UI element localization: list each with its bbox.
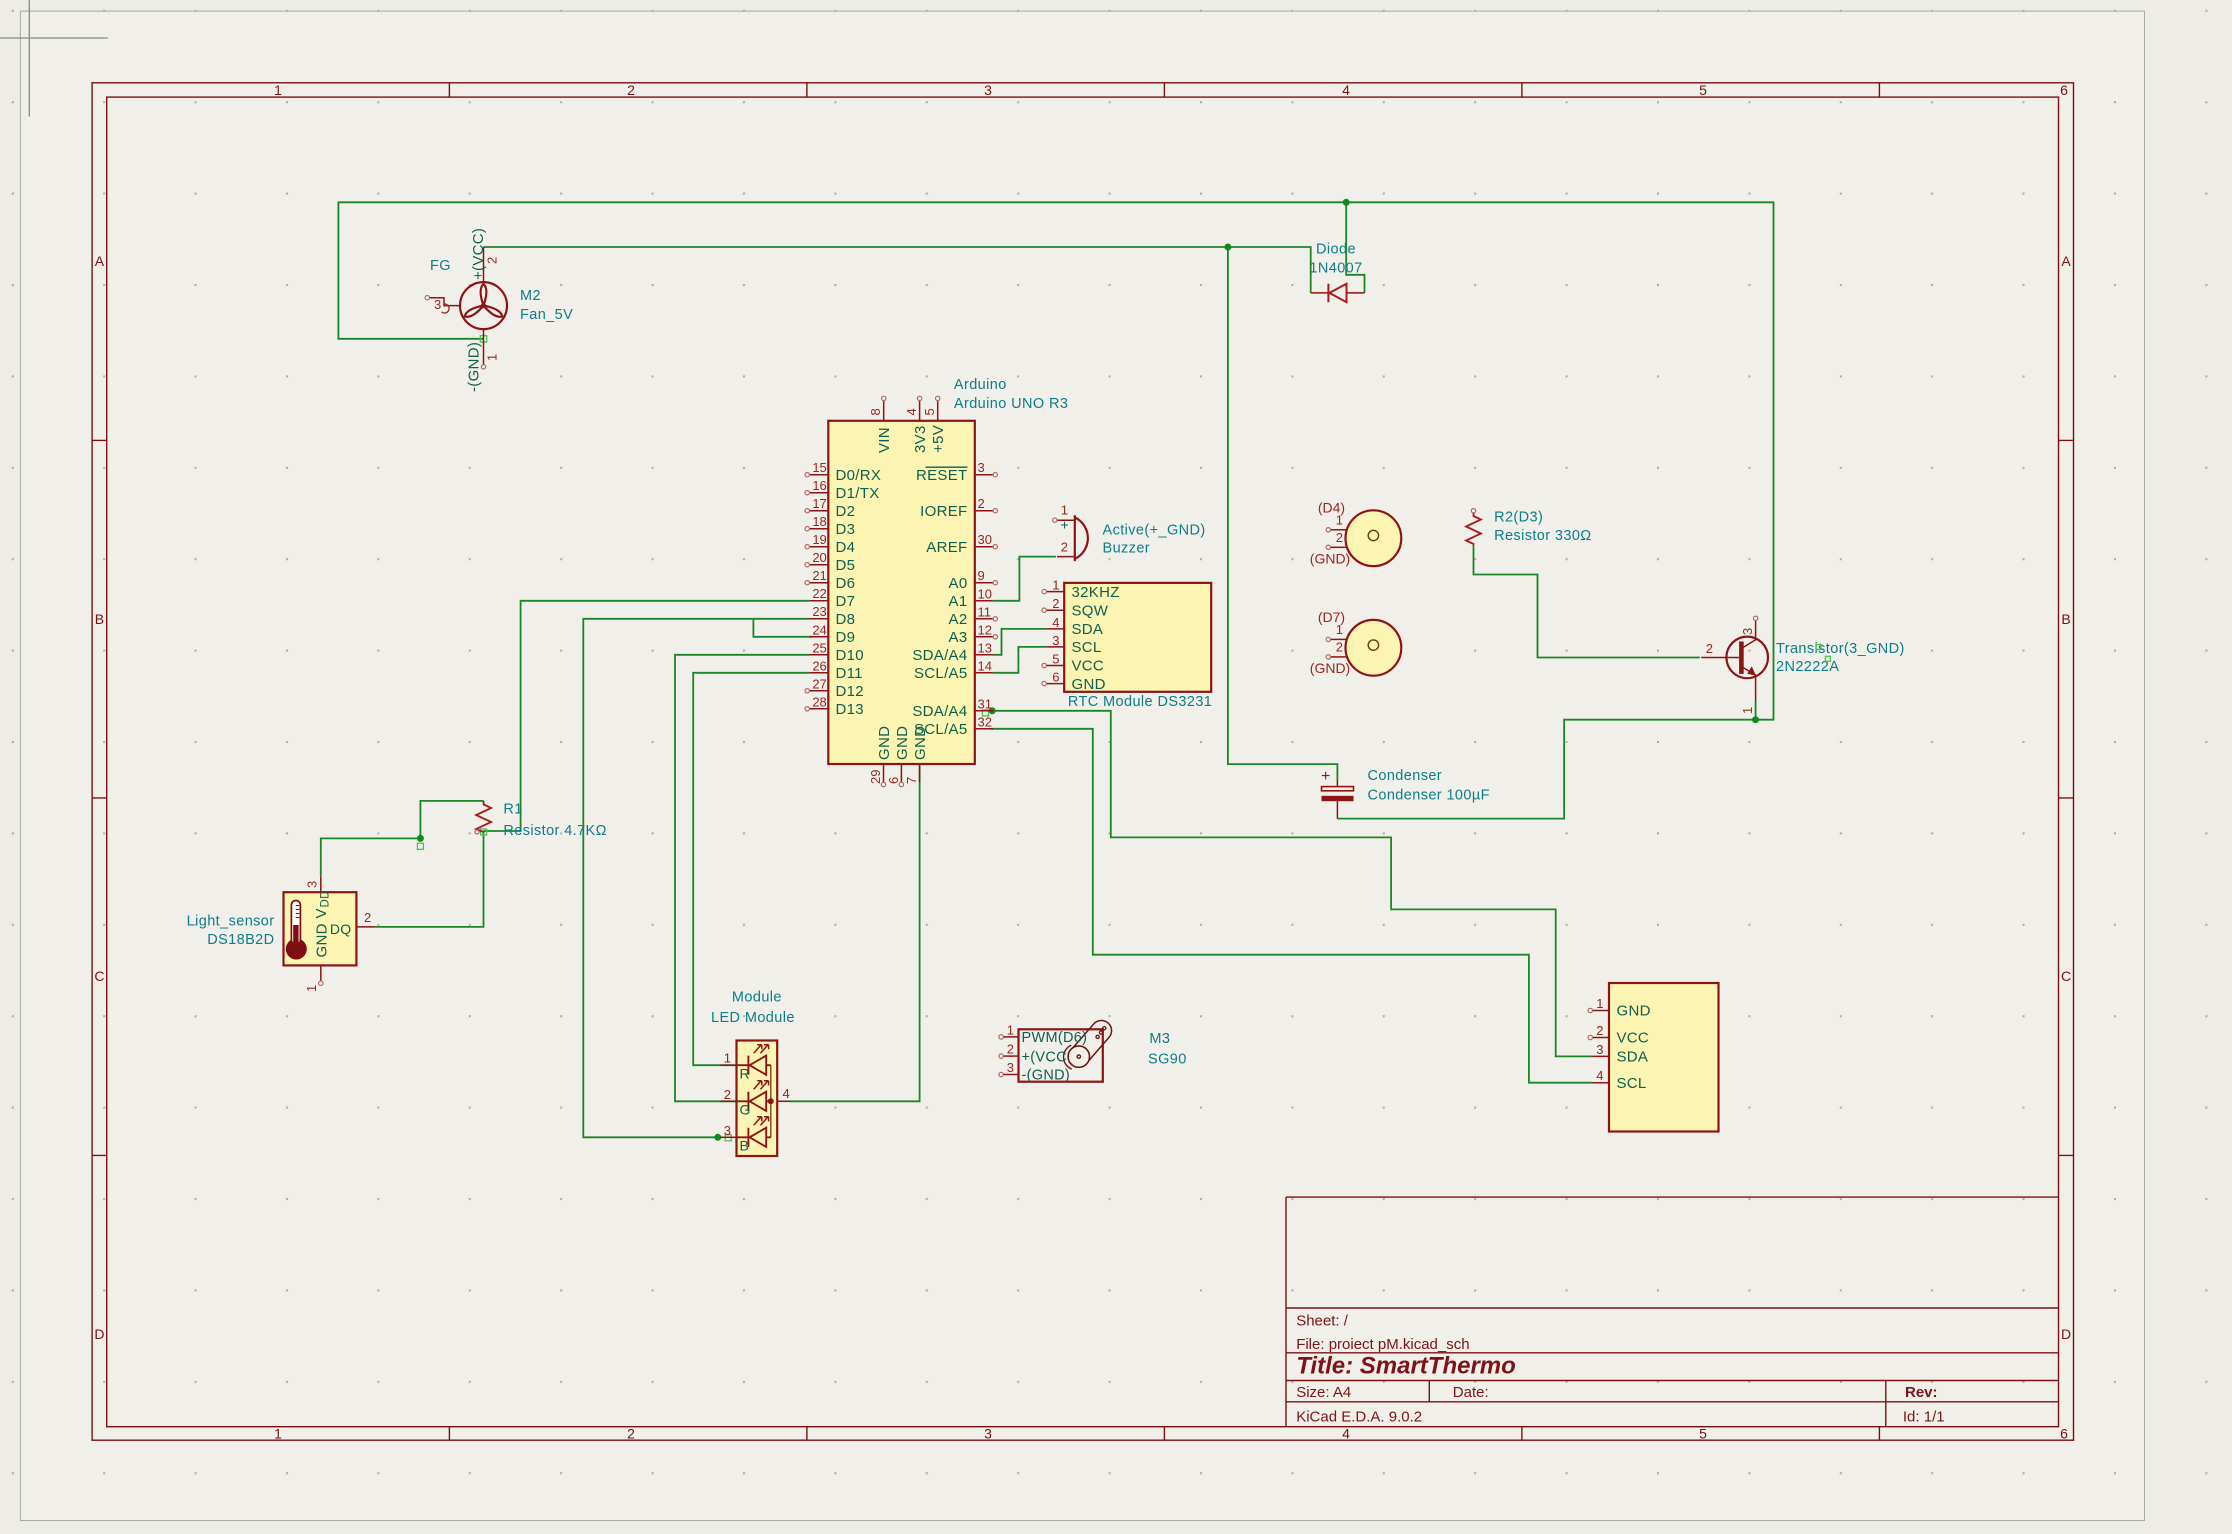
pin 1 GND bbox=[1593, 1010, 1610, 1012]
junction node LED B bbox=[714, 1134, 721, 1141]
svg-text:D0/RX: D0/RX bbox=[836, 467, 882, 484]
svg-text:+(VCC: +(VCC bbox=[1022, 1049, 1067, 1065]
svg-text:14: 14 bbox=[978, 658, 992, 673]
svg-text:Arduino: Arduino bbox=[954, 377, 1007, 393]
pin 4 3V3 bbox=[919, 401, 921, 421]
svg-text:Fan_5V: Fan_5V bbox=[520, 307, 573, 323]
junction node emitter bbox=[1752, 716, 1759, 723]
svg-text:D4: D4 bbox=[836, 539, 856, 556]
inner sheet border bbox=[107, 97, 2059, 1427]
svg-text:SCL: SCL bbox=[1072, 639, 1102, 656]
svg-text:B: B bbox=[740, 1138, 750, 1154]
svg-text:D5: D5 bbox=[836, 557, 856, 574]
svg-text:D9: D9 bbox=[836, 629, 856, 646]
svg-text:4: 4 bbox=[1052, 615, 1059, 630]
svg-text:Title: SmartThermo: Title: SmartThermo bbox=[1296, 1353, 1516, 1380]
svg-text:PWM(D6): PWM(D6) bbox=[1022, 1030, 1088, 1046]
svg-text:DD: DD bbox=[320, 890, 332, 907]
pin 31 SDA/A4 bbox=[975, 710, 993, 712]
svg-text:5: 5 bbox=[922, 408, 937, 415]
wire-end square LED B pin bbox=[725, 1135, 731, 1141]
wire R1 node up to R1 top bbox=[420, 801, 483, 839]
svg-text:R1: R1 bbox=[503, 802, 522, 818]
svg-text:Arduino UNO R3: Arduino UNO R3 bbox=[954, 396, 1068, 412]
svg-text:3V3: 3V3 bbox=[912, 425, 929, 453]
pin 2 IOREF bbox=[975, 510, 993, 512]
pin 4 SDA bbox=[1046, 628, 1064, 630]
emitter pin 1 with arrow bbox=[1741, 667, 1755, 702]
svg-text:6: 6 bbox=[2060, 1426, 2068, 1442]
svg-text:1: 1 bbox=[1061, 502, 1068, 517]
svg-text:3: 3 bbox=[724, 1123, 731, 1138]
wire D7 to R1 bottom node bbox=[484, 601, 810, 831]
svg-text:2: 2 bbox=[627, 82, 635, 98]
svg-text:SCL: SCL bbox=[1617, 1075, 1647, 1092]
LED connector (D7) body bbox=[1346, 620, 1402, 676]
condenser C? 100uF bbox=[1336, 780, 1338, 819]
svg-text:Diode: Diode bbox=[1316, 242, 1356, 258]
svg-text:B: B bbox=[2061, 611, 2070, 627]
pin 2 SQW bbox=[1046, 609, 1064, 611]
svg-text:(GND): (GND) bbox=[1310, 660, 1350, 676]
svg-text:A: A bbox=[2061, 253, 2071, 269]
svg-text:3: 3 bbox=[1740, 628, 1755, 635]
row ticks left bbox=[92, 440, 107, 1155]
svg-text:10: 10 bbox=[978, 586, 992, 601]
wire SCL/A5 to RTC SCL bbox=[993, 647, 1046, 673]
pin 1 32KHZ bbox=[1046, 591, 1064, 593]
pin 6 GND bbox=[900, 764, 902, 782]
wire GND pin7 to LED module pin4 bbox=[790, 766, 920, 1101]
svg-text:(D4): (D4) bbox=[1318, 500, 1345, 516]
svg-text:4: 4 bbox=[1342, 1426, 1350, 1442]
svg-text:SQW: SQW bbox=[1072, 602, 1109, 619]
pin 22 D7 bbox=[809, 600, 828, 602]
svg-text:-(GND): -(GND) bbox=[466, 342, 483, 392]
fan blades bbox=[481, 284, 487, 306]
svg-text:1: 1 bbox=[274, 1426, 282, 1442]
svg-text:16: 16 bbox=[812, 478, 826, 493]
svg-text:V: V bbox=[313, 908, 330, 918]
wire-end square pin31 bbox=[982, 710, 988, 716]
pin 3 B bbox=[721, 1136, 737, 1138]
wire SDA/A4 to RTC SDA bbox=[993, 629, 1046, 655]
svg-text:M2: M2 bbox=[520, 288, 541, 304]
svg-text:13: 13 bbox=[978, 640, 992, 655]
svg-text:+: + bbox=[1321, 768, 1330, 785]
svg-text:6: 6 bbox=[886, 777, 901, 784]
pin 24 D9 bbox=[809, 636, 828, 638]
base lead pin 2 bbox=[1701, 657, 1739, 659]
svg-text:A3: A3 bbox=[949, 629, 968, 646]
Arduino U? body bbox=[828, 421, 975, 764]
svg-text:C: C bbox=[94, 968, 104, 984]
svg-text:7: 7 bbox=[904, 777, 919, 784]
svg-text:GND: GND bbox=[876, 726, 893, 760]
svg-text:17: 17 bbox=[812, 496, 826, 511]
svg-text:DQ: DQ bbox=[330, 921, 352, 937]
wire fan VCC to diode cathode bbox=[484, 247, 1311, 293]
svg-text:Id: 1/1: Id: 1/1 bbox=[1903, 1408, 1945, 1425]
svg-text:SDA: SDA bbox=[1617, 1049, 1649, 1066]
pin 25 D10 bbox=[809, 654, 828, 656]
svg-text:Date:: Date: bbox=[1453, 1384, 1489, 1401]
pin 30 AREF bbox=[975, 546, 993, 548]
row ticks right bbox=[2059, 440, 2074, 1155]
svg-text:5: 5 bbox=[1699, 1426, 1707, 1442]
wire D10 to LED module G pin bbox=[675, 655, 809, 1102]
pin 12 A3 bbox=[975, 636, 993, 638]
svg-text:D8: D8 bbox=[836, 611, 856, 628]
wire D9 elbow joining D8 net bbox=[753, 619, 811, 637]
svg-text:Transistor(3_GND): Transistor(3_GND) bbox=[1776, 641, 1905, 657]
svg-text:D11: D11 bbox=[836, 665, 863, 682]
pin 3 VDD top bbox=[320, 876, 322, 892]
buzzer body bbox=[1075, 515, 1088, 561]
svg-text:FG: FG bbox=[430, 258, 451, 274]
svg-text:2: 2 bbox=[1596, 1023, 1603, 1038]
svg-text:R: R bbox=[740, 1066, 750, 1082]
svg-text:6: 6 bbox=[1052, 670, 1059, 685]
svg-text:1: 1 bbox=[274, 82, 282, 98]
svg-text:IOREF: IOREF bbox=[920, 503, 967, 520]
svg-text:DS18B2D: DS18B2D bbox=[207, 932, 274, 948]
svg-text:1: 1 bbox=[485, 354, 500, 361]
svg-text:4: 4 bbox=[904, 408, 919, 415]
pin 27 D12 bbox=[809, 690, 828, 692]
pin 1 R bbox=[721, 1064, 737, 1066]
common bus bbox=[770, 1065, 772, 1137]
wire pin31 SDA bus to LCD SDA bbox=[992, 711, 1592, 1057]
junction node top net bbox=[1343, 199, 1350, 206]
resistor R1 4.7K bbox=[476, 801, 491, 832]
pin 1 GND bottom bbox=[320, 965, 322, 981]
svg-text:11: 11 bbox=[978, 604, 992, 619]
svg-text:(GND): (GND) bbox=[1310, 551, 1350, 567]
svg-text:+5V: +5V bbox=[930, 425, 947, 453]
title block frame bbox=[1286, 1197, 2059, 1427]
pin 32 SCL/A5 bbox=[975, 728, 993, 730]
thermometer icon bbox=[286, 939, 307, 960]
wire sensor DQ to R1 bottom bbox=[375, 831, 483, 927]
pin 9 A0 bbox=[975, 582, 993, 584]
svg-text:2: 2 bbox=[627, 1426, 635, 1442]
column ticks top bbox=[449, 83, 1879, 97]
svg-text:Buzzer: Buzzer bbox=[1103, 541, 1151, 557]
svg-text:SDA/A4: SDA/A4 bbox=[912, 703, 967, 720]
svg-text:9: 9 bbox=[978, 568, 985, 583]
svg-text:1: 1 bbox=[1596, 996, 1603, 1011]
svg-text:2: 2 bbox=[1706, 641, 1713, 656]
svg-text:RTC Module DS3231: RTC Module DS3231 bbox=[1068, 694, 1212, 710]
svg-text:A1: A1 bbox=[949, 593, 968, 610]
wire-end square fan pin1 bbox=[480, 336, 486, 342]
pin 13 SDA/A4 bbox=[975, 654, 993, 656]
svg-text:GND: GND bbox=[1617, 1003, 1651, 1020]
svg-text:18: 18 bbox=[812, 514, 826, 529]
pin 1 bbox=[1331, 529, 1347, 531]
svg-text:Size: A4: Size: A4 bbox=[1296, 1384, 1351, 1401]
svg-text:2: 2 bbox=[1007, 1042, 1014, 1057]
svg-text:KiCad E.D.A. 9.0.2: KiCad E.D.A. 9.0.2 bbox=[1296, 1408, 1422, 1425]
svg-text:D3: D3 bbox=[836, 521, 856, 538]
diode D? 1N4007 bbox=[1311, 292, 1365, 294]
svg-text:2: 2 bbox=[1052, 596, 1059, 611]
svg-text:VCC: VCC bbox=[1072, 658, 1105, 675]
svg-text:B: B bbox=[95, 611, 104, 627]
svg-text:A2: A2 bbox=[949, 611, 968, 628]
pin 5 VCC bbox=[1046, 665, 1064, 667]
svg-text:2: 2 bbox=[1336, 639, 1343, 654]
svg-text:21: 21 bbox=[812, 568, 826, 583]
pin 2 G bbox=[721, 1100, 737, 1102]
pin 15 D0/RX bbox=[809, 474, 828, 476]
svg-text:Sheet: /: Sheet: / bbox=[1296, 1312, 1349, 1329]
svg-text:1: 1 bbox=[724, 1051, 731, 1066]
fan pin 3 FG bbox=[430, 298, 461, 306]
pin 29 GND bbox=[883, 764, 885, 782]
svg-text:GND: GND bbox=[894, 726, 911, 760]
svg-text:GND: GND bbox=[1072, 676, 1106, 693]
svg-text:25: 25 bbox=[812, 640, 826, 655]
svg-text:1: 1 bbox=[1740, 707, 1755, 714]
servo horn bbox=[1069, 1020, 1112, 1066]
pin 4 SCL bbox=[1593, 1082, 1610, 1084]
svg-text:3: 3 bbox=[1052, 633, 1059, 648]
wire A1 to buzzer pin2 bbox=[993, 557, 1056, 601]
junction node R1/sensor VDD bbox=[417, 835, 424, 842]
svg-text:32KHZ: 32KHZ bbox=[1072, 584, 1120, 601]
svg-text:SDA/A4: SDA/A4 bbox=[912, 647, 967, 664]
svg-text:3: 3 bbox=[434, 297, 441, 312]
LCD I2C module body bbox=[1609, 983, 1719, 1132]
LED symbol at y=1101.3 bbox=[737, 1092, 771, 1111]
buzzer pin 1 bbox=[1057, 519, 1075, 521]
pin 14 SCL/A5 bbox=[975, 672, 993, 674]
svg-text:D12: D12 bbox=[836, 683, 864, 700]
svg-text:Condenser: Condenser bbox=[1368, 768, 1443, 784]
wire R2 bottom to transistor base bbox=[1474, 545, 1700, 658]
svg-text:4: 4 bbox=[783, 1086, 790, 1101]
pin 3 GND bbox=[1003, 1074, 1018, 1076]
svg-text:12: 12 bbox=[978, 622, 992, 637]
svg-text:4: 4 bbox=[1342, 82, 1350, 98]
pin 23 D8 bbox=[809, 618, 828, 620]
svg-text:RESET: RESET bbox=[916, 467, 968, 484]
svg-text:D1/TX: D1/TX bbox=[836, 485, 880, 502]
transistor Q? 2N2222A bbox=[1726, 637, 1768, 679]
svg-text:Resistor 4.7KΩ: Resistor 4.7KΩ bbox=[503, 823, 606, 839]
fan M2 body bbox=[460, 282, 507, 329]
svg-text:26: 26 bbox=[812, 658, 826, 673]
LED symbol at y=1137.3 bbox=[737, 1128, 771, 1147]
wire-end square R1 bottom bbox=[481, 829, 487, 835]
svg-text:30: 30 bbox=[978, 532, 992, 547]
pin 18 D3 bbox=[809, 528, 828, 530]
pin 2 VCC bbox=[1593, 1037, 1610, 1039]
svg-text:20: 20 bbox=[812, 550, 826, 565]
origin crosshair bbox=[0, 0, 108, 117]
svg-text:C: C bbox=[2061, 968, 2071, 984]
svg-text:3: 3 bbox=[305, 881, 320, 888]
pin 26 D11 bbox=[809, 672, 828, 674]
wire-end square R1 node bbox=[417, 843, 423, 849]
wire sensor VDD to R1 node bbox=[321, 838, 421, 876]
pin 3 SCL bbox=[1046, 646, 1064, 648]
pin 2 DQ right bbox=[356, 926, 375, 928]
svg-text:Light_sensor: Light_sensor bbox=[187, 913, 275, 929]
svg-text:LED Module: LED Module bbox=[711, 1010, 795, 1026]
svg-text:2: 2 bbox=[1061, 540, 1068, 555]
wire condenser bottom to emitter node bbox=[1337, 720, 1755, 819]
wire D11 to LED module R pin bbox=[693, 673, 809, 1065]
svg-text:+: + bbox=[1061, 517, 1069, 533]
RTC module U? body bbox=[1064, 583, 1211, 692]
buzzer pin 2 bbox=[1057, 556, 1075, 558]
svg-text:28: 28 bbox=[812, 694, 826, 709]
pin 16 D1/TX bbox=[809, 492, 828, 494]
pin 5 +5V bbox=[937, 401, 939, 421]
pin 17 D2 bbox=[809, 510, 828, 512]
pin 2 VCC bbox=[1003, 1055, 1018, 1057]
svg-text:R2(D3): R2(D3) bbox=[1494, 510, 1543, 526]
svg-text:D2: D2 bbox=[836, 503, 856, 520]
svg-text:4: 4 bbox=[1596, 1068, 1603, 1083]
pin 8 VIN bbox=[883, 401, 885, 421]
svg-text:32: 32 bbox=[978, 714, 992, 729]
svg-text:1: 1 bbox=[304, 985, 319, 992]
svg-text:2: 2 bbox=[978, 496, 985, 511]
svg-text:31: 31 bbox=[978, 696, 992, 711]
pin 1 bbox=[1331, 638, 1347, 640]
svg-text:19: 19 bbox=[812, 532, 826, 547]
pin 19 D4 bbox=[809, 546, 828, 548]
svg-text:27: 27 bbox=[812, 676, 826, 691]
svg-text:3: 3 bbox=[1007, 1060, 1014, 1075]
wire D8 to LED module B pin bbox=[583, 619, 809, 1138]
column ticks bottom bbox=[449, 1427, 1879, 1441]
svg-text:File: proiect pM.kicad_sch: File: proiect pM.kicad_sch bbox=[1296, 1336, 1469, 1353]
svg-text:1: 1 bbox=[1052, 578, 1059, 593]
LED module body bbox=[737, 1041, 778, 1157]
svg-text:D: D bbox=[2061, 1326, 2071, 1342]
LED symbol at y=1065.2 bbox=[737, 1056, 771, 1075]
svg-text:23: 23 bbox=[812, 604, 826, 619]
svg-text:3: 3 bbox=[978, 460, 985, 475]
pin 10 A1 bbox=[975, 600, 993, 602]
svg-text:D6: D6 bbox=[836, 575, 856, 592]
pin 4 common bbox=[777, 1100, 790, 1102]
svg-text:VCC: VCC bbox=[1617, 1030, 1650, 1047]
svg-text:+(VCC): +(VCC) bbox=[470, 228, 487, 280]
wire VCC branch down to condenser plus bbox=[1228, 247, 1338, 780]
junction node VCC branch bbox=[1224, 244, 1231, 251]
svg-text:3: 3 bbox=[984, 1426, 992, 1442]
junction node pin31 bbox=[989, 707, 996, 714]
pin 2 bbox=[1331, 656, 1346, 658]
svg-text:A0: A0 bbox=[949, 575, 968, 592]
svg-text:8: 8 bbox=[868, 408, 883, 415]
svg-text:AREF: AREF bbox=[926, 539, 967, 556]
outer sheet border bbox=[92, 83, 2073, 1440]
svg-text:15: 15 bbox=[812, 460, 826, 475]
svg-text:22: 22 bbox=[812, 586, 826, 601]
pin 28 D13 bbox=[809, 708, 828, 710]
svg-text:GND: GND bbox=[912, 726, 929, 760]
svg-text:D13: D13 bbox=[836, 701, 864, 718]
svg-text:5: 5 bbox=[1052, 652, 1059, 667]
svg-text:D10: D10 bbox=[836, 647, 864, 664]
svg-text:Resistor 330Ω: Resistor 330Ω bbox=[1494, 528, 1591, 544]
svg-text:D: D bbox=[94, 1326, 104, 1342]
fan pin 2 (+) bbox=[483, 247, 485, 282]
pin 7 GND bbox=[919, 764, 921, 782]
pin 11 A2 bbox=[975, 618, 993, 620]
svg-text:G: G bbox=[740, 1102, 751, 1118]
wire pin32 SCL bus to LCD SCL bbox=[991, 729, 1593, 1083]
pin 20 D5 bbox=[809, 564, 828, 566]
svg-text:SG90: SG90 bbox=[1148, 1051, 1187, 1067]
servo M3 body bbox=[1019, 1029, 1103, 1081]
svg-text:6: 6 bbox=[2060, 82, 2068, 98]
wire fan GND loop to transistor emitter node bbox=[338, 202, 1773, 719]
svg-text:2: 2 bbox=[724, 1087, 731, 1102]
wire diode anode up to top net bbox=[1346, 202, 1364, 293]
LED connector (D4) body bbox=[1346, 510, 1402, 566]
svg-text:Rev:: Rev: bbox=[1905, 1384, 1938, 1401]
svg-text:5: 5 bbox=[1699, 82, 1707, 98]
pin 1 PWM bbox=[1003, 1036, 1018, 1038]
svg-text:-(GND): -(GND) bbox=[1022, 1068, 1071, 1084]
svg-text:Active(+_GND): Active(+_GND) bbox=[1103, 523, 1206, 539]
pin 3 SDA bbox=[1593, 1055, 1610, 1057]
svg-text:3: 3 bbox=[984, 82, 992, 98]
svg-text:1: 1 bbox=[1007, 1022, 1014, 1037]
svg-text:3: 3 bbox=[1596, 1042, 1603, 1057]
pin 6 GND bbox=[1046, 683, 1064, 685]
svg-text:M3: M3 bbox=[1149, 1031, 1170, 1047]
pin 3 RESET bbox=[975, 474, 993, 476]
pin 2 bbox=[1331, 546, 1346, 548]
svg-text:Condenser 100µF: Condenser 100µF bbox=[1368, 788, 1490, 804]
svg-text:29: 29 bbox=[868, 770, 883, 784]
svg-text:24: 24 bbox=[812, 622, 826, 637]
pin 21 D6 bbox=[809, 582, 828, 584]
svg-text:2: 2 bbox=[364, 910, 371, 925]
svg-text:D7: D7 bbox=[836, 593, 856, 610]
collector pin 3 bbox=[1741, 621, 1755, 649]
svg-text:Module: Module bbox=[732, 989, 782, 1005]
svg-text:GND: GND bbox=[314, 923, 331, 957]
fan pin 1 (-) bbox=[483, 329, 485, 365]
light sensor DS18B20 body bbox=[284, 892, 357, 965]
svg-text:SDA: SDA bbox=[1072, 621, 1104, 638]
resistor R2(D3) 330ohm bbox=[1471, 509, 1475, 513]
svg-text:2: 2 bbox=[1336, 530, 1343, 545]
svg-text:VIN: VIN bbox=[876, 427, 893, 453]
svg-text:1N4007: 1N4007 bbox=[1309, 261, 1362, 277]
svg-text:SCL/A5: SCL/A5 bbox=[914, 665, 968, 682]
svg-text:A: A bbox=[95, 253, 105, 269]
svg-text:(D7): (D7) bbox=[1318, 609, 1345, 625]
